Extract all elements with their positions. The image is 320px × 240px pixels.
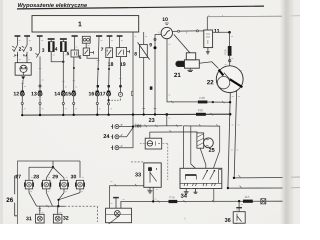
wire: to box 11 — [180, 30, 197, 32]
wire: tank to bottom bus corner — [121, 201, 283, 208]
wire: blower top feed — [184, 126, 220, 168]
horn box — [15, 63, 31, 75]
junction at switch 36 drop — [238, 200, 240, 202]
switch S3 — [22, 37, 27, 63]
label 32 — [63, 216, 68, 220]
label 9 — [149, 43, 151, 46]
bold mark left margin — [150, 86, 153, 89]
wire: resistor to box25 — [200, 148, 206, 168]
voltage regulator box 11 — [204, 17, 213, 48]
connector circle on lamp13 column — [39, 85, 41, 87]
wire: switch 10 to connector right — [173, 30, 178, 32]
connector circle right of 10 — [178, 30, 180, 32]
wire: lamp 24b diagonal — [119, 128, 133, 137]
label 3b — [42, 48, 44, 51]
label 13 — [31, 92, 36, 96]
fuse 34 tiny label — [170, 196, 175, 198]
wire: lamp14 column down — [62, 52, 64, 92]
fuel gauge box — [145, 138, 162, 149]
switch box 33 — [144, 163, 161, 187]
junction 24 — [132, 125, 134, 127]
grounds below box 25 — [184, 189, 198, 195]
junction lamp17 column — [108, 68, 110, 70]
arrow tick on switch10 leg — [171, 101, 173, 103]
diode box 8 — [138, 32, 150, 114]
label 14 — [55, 92, 60, 96]
connector box on bottom bus — [261, 199, 266, 204]
left page edge shading — [0, 0, 3, 224]
connector circle lamp17 leg — [108, 103, 110, 105]
resistor R4a (glow plug) — [48, 39, 55, 52]
stub below 36 — [235, 222, 237, 225]
label 33 — [135, 173, 141, 177]
pin ticks right columns — [238, 175, 241, 188]
ignition lock 22 — [216, 66, 243, 93]
dash-dot to switch 33 — [131, 161, 144, 163]
label 30 — [71, 175, 76, 179]
wire: sender feed from lamp bus area — [108, 186, 110, 208]
wire: column 7 to lamp 16 — [97, 37, 99, 92]
pin tick on gauge wire — [170, 130, 172, 132]
connector circle at box 11 input — [196, 30, 198, 32]
wire: switch 10 down leg and fused feed to ignition — [167, 39, 198, 102]
fuel gauge feed wire — [150, 132, 197, 138]
junction 9 — [154, 46, 157, 49]
label 19 — [120, 62, 125, 66]
dashed continuation right — [65, 206, 98, 222]
dashed link to indicator — [109, 97, 121, 101]
T terminal above 36 — [236, 207, 242, 209]
switch S2 — [12, 37, 17, 63]
wire: horn to lamp 12 — [21, 80, 24, 92]
bulb 30 — [75, 180, 85, 192]
arrow tick on return bus — [46, 205, 48, 207]
label 16 — [89, 92, 94, 96]
fuse cap column 5 — [72, 35, 78, 37]
connector pair on horn feed b — [23, 54, 26, 56]
fuse F1A label (rotated) — [224, 49, 226, 54]
arrow tick on bus — [211, 113, 213, 115]
pin ticks sender wire — [115, 184, 137, 186]
pin tick lamp14 column — [62, 81, 65, 83]
label 12 — [14, 92, 19, 96]
drop to fan point — [52, 161, 54, 167]
terminal ticks above lamp 31 — [38, 209, 41, 211]
connector circle lamp14 leg — [62, 102, 64, 104]
drop to bulb 30 — [79, 161, 81, 178]
wire: 24 output with riser to bus — [133, 125, 182, 127]
label 25 — [209, 148, 215, 152]
arrow ticks bottom bus — [158, 200, 215, 203]
junction on bottom bus — [152, 200, 154, 202]
label 5 — [67, 52, 69, 55]
fuse F20 on bus — [196, 113, 206, 116]
riser from 23 wire to bus — [166, 115, 168, 126]
second drop to switch box 25 — [191, 126, 196, 168]
label 1 — [78, 22, 81, 27]
panel lamp 24c — [111, 145, 122, 150]
blower motor ticks — [206, 139, 209, 146]
connector square on ignition feed — [212, 101, 214, 103]
fuse F1A vertical — [228, 46, 232, 56]
heater switch box 25 — [180, 168, 222, 188]
warning lamp 17 — [107, 91, 111, 96]
pin tick lamp16 column — [96, 60, 99, 62]
lamp 32 — [53, 214, 62, 223]
pin ticks on blower feed — [199, 124, 218, 126]
label 36 — [225, 218, 231, 222]
wire: light feed to box 11 along top — [207, 15, 282, 18]
fuel tank sender box — [106, 208, 132, 224]
junction at top of ignition column — [228, 31, 231, 34]
connector pair on horn feed a — [15, 54, 18, 56]
pin tick lamp15 column — [73, 80, 76, 82]
starter solenoid box — [186, 53, 195, 60]
label 10 — [163, 17, 168, 21]
relay 19 box — [116, 37, 129, 57]
starter motor 21 body — [185, 60, 200, 68]
wire: lamp12 to bus — [21, 96, 23, 115]
junction on lamp15 column — [73, 67, 75, 69]
fuse 35 — [243, 200, 253, 203]
wire: lamp 24c L-bend — [119, 127, 133, 148]
fuse cap column 18 — [107, 35, 113, 37]
tiny label below 25 — [184, 217, 185, 219]
fusebox / dash panel box 1 — [32, 16, 139, 32]
pin tick column 8 — [142, 107, 145, 109]
wire: lamp15 to bus — [73, 96, 75, 115]
warning lamp 12 — [20, 91, 24, 96]
indicator circle (clock) — [118, 92, 122, 96]
pin tick lamp12 column — [21, 83, 24, 85]
title: Wyposażenie elektryczne — [18, 3, 87, 8]
fuse cap column 3 — [24, 35, 30, 37]
wire: box 11 to fuse column — [213, 31, 230, 33]
label 3 — [30, 47, 32, 50]
fuse cap column 19 — [117, 35, 123, 37]
junction bulbs return upper — [57, 199, 59, 201]
label 21 — [174, 73, 180, 77]
connector circle lamp12 leg — [21, 102, 23, 104]
starter motor 21 nose — [176, 61, 185, 67]
connector bracket on x=133 column — [131, 91, 133, 95]
bracket 26 — [15, 176, 17, 216]
pin tick lamp13 column — [39, 68, 41, 70]
wire: R4a bottom jog to lamp14 column — [51, 52, 63, 62]
warning lamp 14 — [61, 91, 65, 96]
wire: lamp15 column down — [73, 57, 75, 92]
bulb 27 — [24, 178, 34, 193]
instrument cluster enclosure 26 — [18, 161, 81, 224]
component 5 box — [71, 37, 78, 57]
connector circle lamp16 leg — [96, 102, 98, 104]
ground below box 11 — [206, 48, 210, 54]
inner feed rail — [29, 167, 53, 178]
warning lamp 16 — [95, 91, 99, 96]
fan junction — [52, 166, 54, 168]
junction dots right columns — [227, 101, 235, 189]
connector square lamp17 column — [108, 85, 110, 87]
connector on 23 wire — [136, 124, 141, 127]
wire: lamp16 to bus — [96, 96, 98, 115]
label 24 — [103, 134, 109, 138]
label 8 — [134, 52, 136, 55]
junction below lamp 17 — [108, 99, 110, 101]
junction lamp16 column — [97, 68, 99, 70]
fuse cap column 7 — [96, 35, 102, 37]
label 22 — [207, 80, 213, 84]
wire: 23 wire corner down to switch box 25 — [183, 126, 185, 169]
ground below 33 — [148, 187, 153, 193]
fuse 35 tiny label — [245, 196, 250, 198]
wire: relay 6 output to lamp16 column — [87, 56, 98, 59]
relay 6 contact box — [83, 48, 89, 56]
T terminal above tank — [113, 198, 119, 209]
label 15 — [66, 92, 71, 96]
wire: lamp13 to bus — [39, 96, 41, 115]
connector circle node 9 column — [154, 38, 156, 40]
right column A (ignition to bottom) — [228, 92, 283, 188]
bulb 28 — [41, 178, 51, 193]
wire: ignition column upper — [229, 32, 231, 46]
wire: long column from box 1 at x=133 — [132, 32, 134, 127]
bulb 29 — [59, 178, 69, 193]
connector square lamp16 column — [97, 85, 99, 87]
label 18 — [108, 62, 113, 66]
connector circle lamp13 leg — [39, 102, 41, 104]
label 7 — [101, 48, 103, 51]
wire: connector into box 11 — [199, 30, 204, 32]
label 29 — [52, 175, 57, 179]
wire: faint continuation on right page — [291, 15, 300, 17]
pin ticks on 23 wire — [145, 125, 178, 128]
wire: fuse F28 to ignition column — [207, 101, 229, 103]
tiny pin number marks (scan texture) — [13, 15, 243, 213]
wire: drop to lamp 32 — [57, 206, 59, 214]
dashes around gauge — [140, 144, 168, 181]
warning lamp 15 — [72, 91, 76, 96]
page fold shading right — [280, 0, 294, 224]
warning lamp 13 — [38, 91, 42, 96]
node 9 column — [155, 34, 161, 114]
clock tick — [120, 94, 122, 96]
relay 18 box — [106, 37, 113, 58]
wire: lamp14 to bus — [62, 96, 64, 115]
main bus wire — [22, 113, 230, 116]
connector square column 19 — [119, 85, 121, 87]
wire: lamp 24a to junction — [119, 126, 133, 128]
wire: relay 19 down to indicator circle — [120, 57, 122, 93]
blower resistor (hatched) — [197, 133, 204, 148]
wire: drop to lamp 31 — [39, 206, 41, 214]
wire: lamp17 to bus — [108, 96, 110, 115]
ground below starter — [187, 68, 193, 71]
terminal mark above switch 10 — [165, 23, 169, 24]
wire: fuse to ignition switch top — [229, 56, 231, 66]
switch box 36 — [233, 212, 245, 224]
bus junction dots — [21, 113, 231, 116]
label 17 — [100, 92, 105, 96]
fan wires to lamps 28-29 — [46, 167, 64, 178]
fuse 34 — [169, 200, 178, 203]
blower motor circle — [204, 138, 214, 148]
fuse F20 label — [198, 109, 203, 111]
switch S3b with wire to lamp 13 — [35, 37, 40, 92]
resistor R4b (glow plug) — [60, 39, 67, 52]
panel lamp 24a — [111, 124, 122, 129]
label 28 — [33, 175, 38, 179]
arrow below horn box — [21, 76, 25, 79]
fuse F28 — [198, 101, 208, 104]
fuse cap column 2 — [15, 35, 21, 37]
wire: sender to switch 33 — [109, 185, 143, 187]
wire: relay 18 to lamp 17 — [108, 58, 111, 92]
label 27 — [15, 175, 20, 179]
label 23 — [149, 118, 155, 122]
ignition switch 10 — [161, 27, 172, 38]
label 34 — [181, 194, 187, 198]
label 4 — [55, 47, 58, 50]
label 6 — [79, 55, 81, 58]
fuse F28 label — [200, 97, 205, 99]
label 11 — [214, 29, 219, 33]
wire: switch 33 output to bottom bus — [152, 187, 154, 201]
return wires bulbs 27-30 — [29, 193, 80, 207]
pin tick column 9 — [154, 107, 157, 109]
connector circle above ignition switch — [229, 60, 231, 62]
panel lamp 24b — [111, 135, 122, 140]
label 26 — [6, 198, 13, 203]
label 31 — [26, 217, 31, 221]
right column B — [234, 90, 282, 178]
pin tick column 19 — [119, 78, 122, 80]
pin tick on ignition feed — [222, 101, 224, 103]
right page strip — [294, 0, 300, 224]
wire: diagonal from switch 10 to starter solenoid — [174, 34, 190, 52]
lamp 31 — [36, 214, 45, 223]
connector stub right of relay 6 — [90, 51, 94, 54]
relay 6 coil box — [82, 36, 90, 48]
junction bulbs return lower — [57, 205, 59, 207]
faint wires on right page — [291, 177, 300, 188]
title underline rule — [17, 6, 264, 9]
connector circle lamp15 leg — [73, 102, 75, 104]
fuse cap column 3b — [37, 35, 43, 37]
wire: box 25 drop to bottom bus — [213, 189, 215, 202]
wire: drop to switch 36 — [238, 201, 240, 211]
wire: starter feed to ignition lock — [199, 62, 218, 69]
label 2 — [19, 47, 21, 50]
junction on lamp14 column — [62, 61, 64, 63]
